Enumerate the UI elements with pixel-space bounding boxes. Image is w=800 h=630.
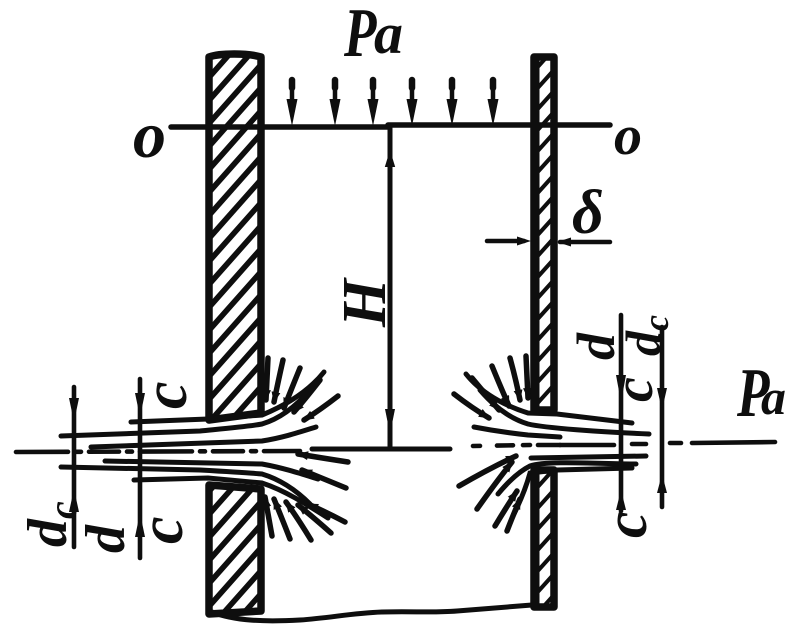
svg-text:δ: δ: [572, 179, 604, 247]
svg-text:a: a: [374, 1, 403, 66]
svg-text:P: P: [343, 0, 377, 72]
svg-text:c: c: [132, 381, 200, 409]
svg-text:o: o: [614, 105, 642, 167]
svg-text:a: a: [761, 369, 786, 425]
svg-text:d: d: [75, 524, 137, 553]
svg-text:c: c: [603, 377, 665, 402]
svg-text:c: c: [128, 516, 196, 544]
svg-text:o: o: [133, 99, 166, 172]
svg-text:c: c: [593, 511, 659, 538]
svg-text:H: H: [331, 277, 399, 328]
